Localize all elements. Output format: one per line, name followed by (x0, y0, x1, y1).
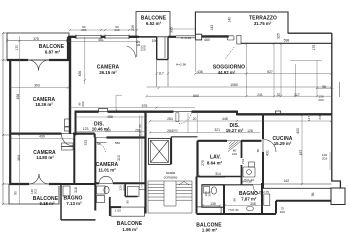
room label CAMERA 11.01 (96, 162, 119, 172)
corridor top wall (171, 136, 197, 138)
svg-text:135: 135 (210, 202, 216, 206)
svg-text:H=0.45: H=0.45 (181, 36, 191, 40)
room label BALCONE 1.90 (196, 223, 222, 233)
svg-text:1.95 m²: 1.95 m² (122, 227, 138, 232)
svg-text:360: 360 (105, 129, 111, 133)
svg-text:438: 438 (16, 94, 20, 100)
svg-text:190: 190 (152, 39, 158, 43)
svg-text:430: 430 (266, 150, 270, 156)
shower box (243, 162, 255, 177)
svg-text:202: 202 (34, 189, 38, 194)
svg-text:312: 312 (138, 131, 142, 136)
svg-text:430: 430 (39, 135, 45, 139)
wall notch (99, 109, 108, 112)
lav left wall (196, 141, 198, 177)
french door camera 11.01 (99, 176, 113, 183)
wall camera26/soggiorno shaft (157, 37, 168, 87)
svg-text:15.29 m²: 15.29 m² (274, 141, 292, 146)
loggia line (263, 187, 331, 189)
svg-text:147: 147 (307, 116, 311, 121)
svg-text:203: 203 (81, 28, 86, 32)
room label BALCONE 6.87 (39, 44, 65, 55)
svg-text:8.64 m²: 8.64 m² (207, 161, 223, 166)
room label TERRAZZO (249, 16, 277, 26)
svg-text:26: 26 (66, 39, 70, 43)
window W1 (76, 35, 101, 39)
room label BALCONE 1.95 (117, 221, 143, 232)
cucina bottom line (263, 183, 332, 185)
wall above balcone 1.95 (109, 197, 145, 216)
stair shaft right wall (170, 137, 172, 165)
svg-text:1.90 m²: 1.90 m² (202, 228, 218, 233)
svg-text:260: 260 (81, 101, 85, 106)
room label CUCINA (272, 136, 292, 146)
balcone B1 bottom wall (7, 59, 69, 61)
svg-text:660: 660 (193, 94, 199, 98)
room label CAMERA 14.80 (33, 150, 56, 160)
svg-text:313: 313 (117, 155, 121, 161)
camera 14.80 right wall (73, 134, 75, 184)
svg-text:98: 98 (322, 85, 326, 89)
door to terrazzo (226, 36, 242, 59)
balcone B5 outline (1.90) (197, 207, 221, 213)
camera18/camera26 wall (69, 37, 71, 134)
balcone B2 outline (BALCONE 6.52) (136, 12, 170, 37)
notch cucina (276, 111, 281, 114)
svg-text:433: 433 (296, 128, 300, 134)
svg-text:436: 436 (78, 71, 82, 77)
svg-text:100: 100 (280, 210, 285, 214)
dis left wall (75, 112, 77, 136)
balcone B2 right wall (67, 37, 69, 60)
bottom right wing (276, 201, 331, 214)
svg-text:20: 20 (138, 124, 142, 128)
svg-text:488: 488 (107, 115, 113, 119)
cucina left wall (262, 114, 264, 188)
svg-text:90: 90 (14, 191, 18, 195)
terrazzo top wall right section (288, 32, 332, 34)
soggiorno beam line (147, 86, 332, 88)
svg-text:6.52 m²: 6.52 m² (146, 21, 162, 26)
svg-text:90: 90 (126, 200, 130, 204)
balcone B2 bottom wall (136, 36, 176, 38)
top wall under terrazzo (202, 35, 229, 37)
room label DIS 10.46 (92, 122, 110, 132)
svg-text:598: 598 (284, 38, 290, 42)
room label BAGNO 7.87 (239, 191, 258, 202)
svg-text:26: 26 (137, 43, 141, 47)
balcone B1 outline (BALCONE 6.87) (7, 33, 69, 60)
bagno 7.87 fixtures (247, 194, 270, 211)
label scala comune (164, 170, 178, 180)
room label SOGGIORNO (213, 64, 245, 75)
svg-text:210: 210 (232, 152, 237, 156)
svg-text:90: 90 (97, 142, 101, 146)
svg-text:229: 229 (140, 48, 145, 52)
svg-text:98: 98 (233, 198, 237, 202)
svg-text:7,87 m²: 7,87 m² (241, 197, 257, 202)
svg-text:128: 128 (247, 129, 253, 133)
svg-text:217: 217 (294, 93, 300, 97)
svg-text:117: 117 (158, 72, 164, 76)
svg-text:140: 140 (228, 17, 232, 23)
svg-text:460: 460 (204, 38, 210, 42)
svg-text:18.26 m²: 18.26 m² (35, 102, 53, 107)
svg-text:375: 375 (33, 37, 39, 41)
entrance door (174, 112, 192, 124)
svg-text:461: 461 (98, 38, 104, 42)
outer left dimension line (3, 33, 9, 204)
svg-text:80: 80 (256, 149, 260, 153)
french door camera 14.80 (29, 174, 49, 184)
svg-text:527: 527 (267, 70, 273, 74)
svg-text:308: 308 (250, 202, 256, 206)
interior dimension lines (10, 29, 340, 206)
closet lobby (125, 183, 145, 196)
svg-text:275: 275 (201, 160, 205, 166)
room label BALCONE 3.18 (33, 196, 59, 206)
svg-text:175: 175 (312, 45, 316, 51)
svg-text:241: 241 (257, 93, 263, 97)
svg-text:437: 437 (299, 150, 303, 156)
dimension texts (14, 17, 328, 214)
door to lav hatch (227, 141, 241, 152)
svg-text:325: 325 (277, 33, 281, 39)
svg-text:314: 314 (215, 172, 221, 176)
svg-text:203: 203 (322, 157, 327, 161)
terrazzo outline (195, 12, 331, 34)
door french B1 (28, 60, 49, 71)
top wall left section (68, 36, 137, 38)
svg-text:263: 263 (172, 129, 177, 133)
door to camera 14.80 (62, 134, 74, 146)
bottom right square (331, 188, 345, 205)
balcone B3 outline (3.18) (9, 184, 59, 204)
svg-text:98: 98 (311, 193, 315, 197)
svg-text:44.92 m²: 44.92 m² (218, 70, 236, 75)
svg-text:318: 318 (74, 187, 78, 193)
pillar (195, 34, 201, 40)
corridor bottom / lav bottom (197, 176, 242, 178)
wall dis bottom / camera tops (10, 134, 147, 138)
svg-text:143: 143 (210, 25, 214, 31)
shaft boxes left (65, 119, 71, 131)
dimension ticks (2, 29, 333, 207)
svg-text:3.18 m²: 3.18 m² (39, 201, 55, 206)
door to camera 11.01 (95, 138, 107, 154)
door to cucina (263, 139, 276, 152)
room label DIS 15.27 (226, 123, 244, 133)
svg-text:321: 321 (214, 128, 220, 132)
right outer wall (332, 33, 341, 188)
svg-text:436: 436 (197, 70, 203, 74)
svg-text:H=2.98: H=2.98 (176, 63, 186, 67)
window band to terrazzo (241, 42, 332, 44)
room label BAGNO 7.13 (63, 196, 82, 206)
room label CAMERA 18.26 (33, 97, 56, 107)
door to bagno 7.87 (253, 185, 262, 194)
svg-text:H=2.75: H=2.75 (259, 190, 269, 194)
svg-text:372: 372 (84, 140, 88, 146)
stair left wall (144, 112, 146, 214)
svg-text:1.00: 1.00 (115, 208, 121, 212)
svg-text:H=1.94: H=1.94 (244, 178, 254, 182)
svg-text:31.75 m²: 31.75 m² (254, 21, 272, 26)
main middle wall (soggiorno/dis) (75, 111, 332, 116)
svg-text:comune: comune (164, 175, 178, 180)
svg-text:6.87 m²: 6.87 m² (45, 50, 61, 55)
svg-text:339: 339 (131, 25, 135, 31)
bagno fixtures (63, 186, 109, 203)
camera 14.80 bottom wall (10, 183, 62, 185)
wardrobe camera 14.80 (62, 143, 74, 150)
svg-text:14.80 m²: 14.80 m² (36, 155, 54, 160)
room label CAMERA 26.15 (97, 65, 120, 76)
svg-text:284: 284 (167, 117, 173, 121)
wc fixtures (204, 187, 217, 195)
svg-text:219: 219 (241, 159, 245, 164)
svg-text:20: 20 (193, 117, 197, 121)
room label LAV (207, 155, 223, 166)
svg-text:448: 448 (222, 117, 228, 121)
svg-text:393: 393 (34, 84, 40, 88)
window W2 (105, 35, 129, 39)
svg-text:7.13 m²: 7.13 m² (66, 201, 82, 206)
svg-text:200: 200 (318, 98, 323, 102)
stair treads (148, 181, 192, 213)
svg-text:580: 580 (115, 141, 120, 145)
svg-text:H=0.30: H=0.30 (228, 208, 238, 212)
svg-text:202: 202 (122, 185, 126, 190)
svg-text:32: 32 (277, 93, 281, 97)
left outer wall (9, 60, 11, 184)
bagno 7.13 walls (61, 184, 96, 220)
svg-text:575: 575 (142, 104, 148, 108)
svg-text:15.27 m²: 15.27 m² (226, 128, 244, 133)
bagno strip wall (241, 141, 243, 185)
svg-text:335: 335 (170, 27, 174, 33)
stair X shaft (148, 138, 170, 164)
svg-text:170: 170 (15, 45, 19, 51)
parapet H=0.45 (176, 36, 195, 38)
wc room box (202, 185, 224, 207)
svg-text:11.01 m²: 11.01 m² (98, 167, 116, 172)
dis15 bottom wall (198, 140, 262, 142)
svg-text:230: 230 (114, 28, 119, 32)
door from B2 to camera (127, 36, 157, 57)
svg-text:26.15 m²: 26.15 m² (99, 70, 117, 75)
svg-text:1080: 1080 (230, 83, 238, 87)
balcone B4 outline (1.95) (111, 207, 145, 216)
bagno 7.87 walls (197, 177, 277, 215)
camera 11.01 left wall (94, 138, 96, 185)
svg-text:364: 364 (17, 155, 21, 161)
camera 11.01 bottom wall (95, 182, 145, 184)
svg-text:203: 203 (208, 191, 212, 196)
svg-text:123: 123 (83, 127, 89, 131)
svg-text:248: 248 (318, 114, 322, 119)
room label BALCONE 6.52 (141, 16, 167, 26)
svg-text:162: 162 (284, 179, 290, 183)
